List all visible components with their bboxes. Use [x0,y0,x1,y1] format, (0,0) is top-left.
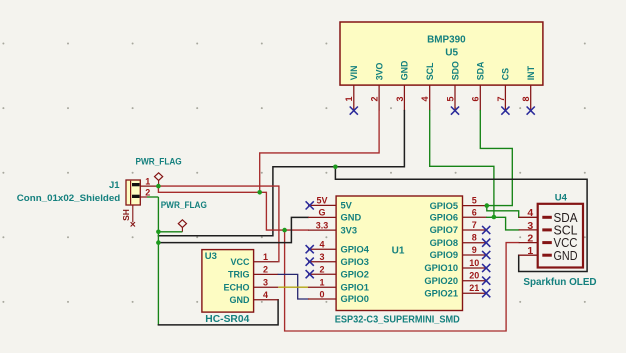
svg-text:J1: J1 [109,180,120,191]
svg-text:PWR_FLAG: PWR_FLAG [161,200,207,211]
svg-text:GPIO1: GPIO1 [341,282,369,292]
svg-text:3: 3 [527,220,533,232]
svg-text:8: 8 [521,96,531,101]
svg-text:SH: SH [121,209,131,221]
svg-text:GND: GND [230,295,251,305]
svg-text:VIN: VIN [349,66,359,81]
svg-text:7: 7 [472,220,477,230]
svg-text:20: 20 [469,271,479,281]
svg-text:3VO: 3VO [374,62,384,80]
svg-text:SDO: SDO [450,61,460,80]
svg-text:Sparkfun OLED: Sparkfun OLED [523,277,596,288]
svg-text:VCC: VCC [230,257,250,267]
svg-text:4: 4 [319,240,324,250]
svg-text:GPIO9: GPIO9 [430,250,458,260]
svg-text:GPIO21: GPIO21 [424,288,458,298]
svg-text:10: 10 [469,258,479,268]
svg-text:2: 2 [319,265,324,275]
svg-text:4: 4 [420,96,430,101]
svg-text:U4: U4 [555,193,568,204]
svg-text:1: 1 [527,245,533,257]
svg-text:2: 2 [263,265,268,275]
svg-text:2: 2 [527,233,533,245]
svg-text:GPIO2: GPIO2 [341,269,369,279]
svg-text:HC-SR04: HC-SR04 [205,314,249,325]
svg-text:4: 4 [527,207,533,219]
svg-text:U1: U1 [392,246,405,257]
svg-text:TRIG: TRIG [228,270,250,280]
svg-text:6: 6 [471,96,481,101]
svg-text:GND: GND [554,248,578,263]
svg-text:U5: U5 [445,48,458,59]
svg-text:5: 5 [445,96,455,101]
svg-text:3V3: 3V3 [341,225,358,235]
svg-text:CS: CS [501,68,511,80]
svg-text:Conn_01x02_Shielded: Conn_01x02_Shielded [17,193,121,204]
svg-text:GPIO3: GPIO3 [341,257,369,267]
svg-text:U3: U3 [205,251,217,262]
svg-text:5V: 5V [316,196,327,206]
svg-text:3.3: 3.3 [316,220,329,230]
svg-text:1: 1 [344,96,354,101]
svg-text:5V: 5V [341,201,353,211]
svg-text:1: 1 [145,177,150,187]
svg-text:GND: GND [400,60,410,80]
svg-text:0: 0 [319,289,324,299]
svg-text:GPIO7: GPIO7 [430,225,458,235]
svg-text:5: 5 [472,196,477,206]
svg-text:PWR_FLAG: PWR_FLAG [136,156,182,167]
svg-text:1: 1 [263,252,268,262]
svg-text:7: 7 [496,96,506,101]
svg-text:3: 3 [319,252,324,262]
svg-text:INT: INT [526,65,536,80]
svg-text:1: 1 [319,278,324,288]
svg-text:21: 21 [469,283,479,293]
svg-text:GPIO6: GPIO6 [430,213,458,223]
svg-text:8: 8 [472,233,477,243]
svg-text:SCL: SCL [425,62,435,80]
svg-text:3: 3 [395,96,405,101]
svg-text:GPIO4: GPIO4 [341,244,370,254]
svg-text:ESP32-C3_SUPERMINI_SMD: ESP32-C3_SUPERMINI_SMD [335,314,460,325]
svg-text:GPIO5: GPIO5 [430,201,458,211]
svg-text:GPIO0: GPIO0 [341,294,369,304]
svg-text:GPIO8: GPIO8 [430,238,458,248]
svg-text:GPIO20: GPIO20 [424,276,458,286]
svg-text:3: 3 [263,278,268,288]
svg-text:GPIO10: GPIO10 [424,263,458,273]
svg-text:GND: GND [341,213,362,223]
svg-text:ECHO: ECHO [223,282,249,292]
svg-text:2: 2 [145,188,150,198]
svg-text:6: 6 [472,207,477,217]
svg-text:4: 4 [263,290,268,300]
svg-text:SDA: SDA [476,61,486,80]
svg-text:2: 2 [370,96,380,101]
svg-text:BMP390: BMP390 [427,34,466,45]
svg-text:9: 9 [472,245,477,255]
svg-text:G: G [318,208,325,218]
